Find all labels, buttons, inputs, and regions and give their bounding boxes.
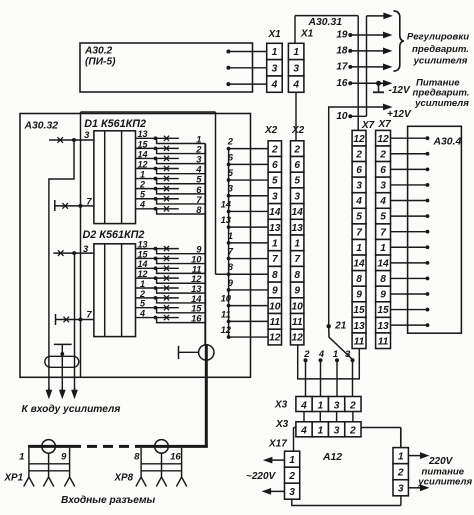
screen ground bar [54, 343, 72, 345]
box A30.31 amplifier board outline [295, 15, 358, 17]
wire X7 pin 1 to A30.4 [391, 246, 428, 248]
box A30.2 (PI-5) preamp unit [80, 43, 253, 92]
wire A30.2 pin to X1 pin 1 [226, 50, 230, 54]
cable wire 6 to X2 pin 6 [227, 162, 231, 166]
svg-text:2: 2 [349, 426, 356, 437]
cable wire 14 to X2 pin 14 [227, 210, 231, 214]
svg-text:10: 10 [292, 301, 304, 312]
svg-text:12: 12 [353, 134, 365, 145]
svg-text:Х1: Х1 [268, 29, 282, 40]
wire X7 pin 3 to A30.4 [391, 184, 428, 186]
svg-text:3: 3 [289, 487, 295, 498]
svg-text:1: 1 [356, 243, 362, 254]
svg-text:13: 13 [292, 223, 304, 234]
svg-text:А12: А12 [322, 452, 342, 463]
cable wire 13 to X2 pin 13 [227, 225, 231, 229]
svg-text:5: 5 [272, 176, 278, 187]
svg-text:1: 1 [317, 400, 323, 411]
IC D1 K561KP2 [94, 131, 136, 224]
svg-text:усилителя: усилителя [417, 476, 472, 487]
wire +12V vertical feed [366, 16, 368, 116]
svg-text:2: 2 [288, 471, 295, 482]
svg-text:8: 8 [356, 274, 362, 285]
svg-text:9: 9 [61, 452, 67, 463]
brace for regulation arrows [394, 11, 405, 71]
svg-text:1: 1 [272, 238, 278, 249]
svg-text:14: 14 [221, 198, 232, 209]
svg-text:17: 17 [336, 62, 348, 73]
svg-text:7: 7 [86, 309, 92, 320]
wire X1 plug to X2 plug [295, 92, 297, 141]
svg-text:3: 3 [272, 191, 278, 202]
svg-text:8: 8 [196, 204, 202, 215]
svg-text:6: 6 [294, 160, 300, 171]
svg-text:7: 7 [86, 195, 92, 206]
cable wire 7 to X2 pin 7 [227, 257, 231, 261]
svg-text:5: 5 [380, 212, 386, 223]
svg-text:1: 1 [228, 230, 233, 241]
wire 3 to X3 pin area [351, 358, 355, 362]
svg-text:Регулировки: Регулировки [407, 32, 469, 43]
svg-text:14: 14 [353, 258, 365, 269]
svg-text:3: 3 [228, 183, 234, 194]
svg-text:4: 4 [292, 80, 299, 91]
cable bus thick segment to input connectors [205, 361, 208, 447]
svg-text:9: 9 [228, 277, 234, 288]
input cable (screened) to XP connectors [28, 445, 81, 448]
connector X2 plug (A30.31 side) [291, 141, 304, 157]
svg-text:16: 16 [191, 313, 202, 324]
cable wire 12 to X2 pin 12 [227, 335, 231, 339]
svg-text:1: 1 [380, 243, 386, 254]
wire A12 top edge to output connector [400, 428, 402, 448]
svg-text:предварит.: предварит. [413, 87, 470, 98]
svg-text:1: 1 [398, 451, 404, 462]
svg-text:4: 4 [355, 196, 362, 207]
cable wire 2 to X2 pin 2 [227, 147, 231, 151]
svg-text:18: 18 [336, 46, 348, 57]
wire X7 pin 8 to A30.4 [391, 277, 428, 279]
svg-text:1: 1 [293, 47, 299, 58]
svg-text:11: 11 [378, 336, 389, 347]
connector XP1 pins [28, 448, 30, 477]
svg-text:А30.2: А30.2 [84, 46, 113, 57]
svg-text:Х2: Х2 [264, 125, 278, 136]
svg-text:8: 8 [134, 452, 140, 463]
svg-text:8: 8 [294, 270, 300, 281]
svg-text:220V: 220V [428, 456, 454, 467]
svg-text:-12V: -12V [389, 85, 411, 96]
svg-text:5: 5 [356, 212, 362, 223]
svg-text:1: 1 [19, 452, 24, 463]
switch arm [329, 326, 352, 359]
svg-text:14: 14 [269, 207, 281, 218]
svg-text:Входные разъемы: Входные разъемы [61, 495, 155, 506]
box D1-D2 jumper field / common net wire [81, 111, 216, 113]
svg-text:9: 9 [272, 286, 278, 297]
svg-text:1: 1 [317, 426, 323, 437]
svg-text:3: 3 [272, 63, 278, 74]
junction on -12V wire [376, 81, 381, 86]
wire D2 pin3 net down to input cable [74, 253, 76, 390]
wire 4 to X3 pin area [319, 358, 323, 362]
connector XP8 pins [140, 448, 142, 477]
svg-text:А30.32: А30.32 [24, 121, 59, 132]
connector A12 output 220V [393, 448, 408, 464]
wire X7 pin 9 to A30.4 [391, 293, 428, 295]
svg-text:12: 12 [292, 333, 304, 344]
svg-text:15: 15 [353, 305, 365, 316]
svg-text:6: 6 [228, 151, 234, 162]
svg-text:3: 3 [293, 63, 299, 74]
connector X3 cable row [296, 397, 312, 412]
connector XP1 screen circle [42, 440, 56, 454]
svg-text:12: 12 [269, 333, 281, 344]
connector X7 socket (A30.4 side) [376, 130, 391, 146]
connector X1 plug (A30.31 side) [288, 43, 304, 59]
svg-text:D1 К561КП2: D1 К561КП2 [84, 118, 146, 130]
svg-text:+12V: +12V [387, 109, 412, 120]
svg-text:2: 2 [379, 149, 386, 160]
cable wire 11 to X2 pin 11 [227, 319, 231, 323]
wire X7 pin 12 to A30.4 [391, 137, 428, 139]
svg-text:1: 1 [289, 455, 295, 466]
connector X1 socket (cable side) [267, 43, 283, 59]
switch contact 21 [327, 324, 331, 328]
svg-text:8: 8 [272, 270, 278, 281]
svg-text:3: 3 [380, 181, 386, 192]
svg-text:6: 6 [356, 165, 362, 176]
wire X7 pin 5 to A30.4 [391, 215, 428, 217]
cable wire 10 to X2 pin 10 [227, 304, 231, 308]
svg-text:Х7: Х7 [361, 120, 375, 131]
svg-text:12: 12 [221, 324, 232, 335]
svg-text:15: 15 [377, 305, 389, 316]
svg-text:16: 16 [336, 78, 348, 89]
svg-text:2: 2 [355, 149, 362, 160]
svg-text:7: 7 [228, 245, 234, 256]
svg-text:2: 2 [397, 467, 404, 478]
svg-text:9: 9 [380, 290, 386, 301]
svg-text:13: 13 [377, 321, 389, 332]
svg-text:Х3: Х3 [274, 400, 288, 411]
svg-text:1: 1 [294, 238, 300, 249]
cable exit bus at X2 [228, 149, 230, 337]
cable bus thick segment through screen [205, 344, 208, 361]
svg-text:усилителя: усилителя [414, 98, 469, 109]
cable wire 8 to X2 pin 8 [227, 272, 231, 276]
svg-text:3: 3 [84, 129, 90, 140]
screen ground tap [178, 346, 180, 359]
cable screen oval [45, 356, 79, 367]
cable wire 9 to X2 pin 9 [227, 288, 231, 292]
wire common net to X2 pin 8 [216, 273, 229, 275]
svg-text:Х17: Х17 [268, 439, 287, 450]
svg-text:предварит.: предварит. [412, 44, 469, 55]
svg-text:10: 10 [336, 111, 348, 122]
arrow 220V out phase [408, 455, 422, 457]
connector X17 mains input [285, 451, 300, 467]
svg-text:12: 12 [377, 134, 389, 145]
svg-text:(ПИ-5): (ПИ-5) [85, 57, 116, 68]
wire top regulation arrow [367, 15, 386, 17]
svg-text:2: 2 [349, 400, 356, 411]
svg-text:2: 2 [293, 144, 300, 155]
wire D1 pin3 net down to input cable [49, 140, 74, 390]
svg-text:~220V: ~220V [246, 471, 277, 482]
wire X2 plug bottom to X7 plug bottom [298, 345, 360, 379]
svg-text:5: 5 [294, 176, 300, 187]
svg-text:8: 8 [380, 274, 386, 285]
wire A30.2 pin to X1 pin 3 [226, 66, 230, 70]
svg-text:ХР8: ХР8 [114, 472, 134, 483]
svg-text:Х3: Х3 [275, 419, 289, 430]
svg-text:9: 9 [356, 290, 362, 301]
svg-text:21: 21 [334, 321, 346, 332]
svg-text:14: 14 [377, 258, 389, 269]
wire +12V arrow [367, 106, 386, 108]
box A30.4 preamp unit [408, 126, 462, 333]
svg-text:11: 11 [354, 336, 365, 347]
svg-text:А30.4: А30.4 [433, 137, 462, 148]
wire X7 pin 7 to A30.4 [391, 231, 428, 233]
svg-text:Х1: Х1 [300, 29, 314, 40]
box A12 power unit [293, 428, 295, 452]
svg-text:2: 2 [271, 144, 278, 155]
svg-text:8: 8 [228, 261, 234, 272]
arrow to amplifier input 2 [61, 388, 63, 392]
svg-text:6: 6 [272, 160, 278, 171]
svg-text:4: 4 [300, 400, 307, 411]
svg-text:5: 5 [228, 167, 234, 178]
svg-text:19: 19 [336, 30, 348, 41]
svg-text:4: 4 [300, 426, 307, 437]
wire X7 pin 6 to A30.4 [391, 168, 428, 170]
svg-text:3: 3 [345, 348, 351, 359]
arrow mains phase in [270, 459, 284, 461]
arrow to amplifier input 1 [48, 388, 50, 392]
svg-text:4: 4 [318, 348, 325, 359]
svg-text:Х7: Х7 [378, 119, 392, 130]
cable bus vertical [204, 144, 206, 346]
svg-text:3: 3 [334, 400, 340, 411]
svg-text:10: 10 [269, 301, 281, 312]
arrow mains neutral in [269, 490, 284, 492]
connector XP8 screen circle [155, 440, 169, 454]
wire from +12V line to switch 21 [329, 107, 367, 325]
svg-text:Х2: Х2 [291, 125, 305, 136]
svg-text:D2 К561КП2: D2 К561КП2 [83, 229, 145, 241]
wire X7 pin 4 to A30.4 [391, 200, 428, 202]
wire 2 to X3 pin area [304, 358, 308, 362]
svg-text:4: 4 [271, 80, 278, 91]
svg-text:ХР1: ХР1 [4, 472, 24, 483]
svg-text:10: 10 [221, 293, 232, 304]
svg-text:А30.31: А30.31 [308, 17, 343, 28]
wires between X3 rows [303, 412, 305, 422]
svg-text:9: 9 [294, 286, 300, 297]
arrow to amplifier input 3 [74, 388, 76, 392]
svg-text:14: 14 [292, 207, 304, 218]
svg-text:11: 11 [270, 317, 281, 328]
svg-text:3: 3 [398, 484, 404, 495]
chassis ground symbol on -12V [378, 83, 380, 92]
svg-text:13: 13 [269, 223, 281, 234]
svg-text:13: 13 [221, 214, 232, 225]
wire 1 to X3 pin area [335, 358, 339, 362]
wire X7 pin 15 to A30.4 [391, 309, 428, 311]
cable screen circle [199, 345, 214, 360]
cable wire 1 to X2 pin 1 [227, 241, 231, 245]
connector X7 plug (A30.31 side) [352, 130, 366, 146]
wire A30.2 pin to X1 pin 4 [226, 82, 230, 86]
connector X2 socket (cable side) [268, 141, 281, 157]
svg-text:13: 13 [353, 321, 365, 332]
svg-text:усилителя: усилителя [413, 55, 468, 66]
IC D2 K561KP2 [94, 244, 136, 337]
svg-text:16: 16 [170, 452, 181, 463]
cable wire 5 to X2 pin 5 [227, 178, 231, 182]
box A30.32 input switch unit [20, 114, 251, 378]
svg-text:К входу усилителя: К входу усилителя [22, 404, 121, 415]
svg-text:1: 1 [272, 47, 278, 58]
arrow 220V out neutral [408, 487, 422, 489]
svg-text:4: 4 [379, 196, 386, 207]
wire X7 pin 14 to A30.4 [391, 262, 428, 264]
svg-text:2: 2 [303, 348, 310, 359]
svg-text:6: 6 [380, 165, 386, 176]
connector X3 A12 row [296, 422, 312, 437]
wire X7 pin 13 to A30.4 [391, 324, 428, 326]
svg-text:11: 11 [221, 308, 231, 319]
svg-text:3: 3 [294, 191, 300, 202]
svg-text:3: 3 [83, 243, 89, 254]
wire X7 pin 2 to A30.4 [391, 153, 428, 155]
svg-text:11: 11 [292, 317, 303, 328]
svg-text:3: 3 [356, 181, 362, 192]
svg-text:2: 2 [227, 136, 234, 147]
svg-text:3: 3 [334, 426, 340, 437]
cable wire 3 to X2 pin 3 [227, 194, 231, 198]
svg-text:1: 1 [333, 348, 338, 359]
